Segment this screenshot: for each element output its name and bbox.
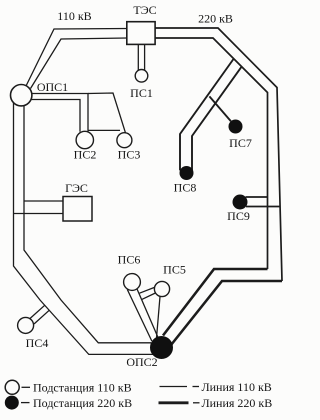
wire 110kV ПС4 stub 1 [30, 305, 45, 318]
svg-text:ОПС1: ОПС1 [37, 80, 68, 94]
wire 220kV stub to ПС7 [209, 96, 231, 121]
wire 220kV ТЭС-ОПС2 ring outer upper part [155, 28, 282, 281]
wire 110kV ОПС1-ПС2 circuit 1 with branch to ПС3 [32, 94, 89, 132]
wire 110kV ПС6-ОПС2 circuit 1 [127, 290, 152, 342]
wire 220kV ПС9 lower tap [246, 206, 280, 208]
wire 110kV ПС2-ПС3 link [88, 129, 120, 131]
wire 220kV ТЭС-ОПС2 ring inner upper part [155, 38, 267, 269]
wire 110kV ПС5 stub upper [140, 287, 156, 293]
wire 220kV feeder to ПС8 circuit 1 [180, 59, 234, 170]
wire 110kV branch to ПС3 [88, 93, 126, 133]
substation ПС4 [18, 317, 34, 333]
wire 220kV ring outer lower part [171, 281, 282, 345]
legend line 110 symbol [160, 386, 188, 388]
power station ТЭС [127, 22, 155, 45]
svg-text:ПС6: ПС6 [118, 253, 141, 267]
wire 110kV ТЭС-ПС1 circuit 1 [137, 44, 139, 71]
wire 110kV ПС5-ОПС2 [157, 297, 161, 339]
svg-text:220 кВ: 220 кВ [198, 12, 233, 26]
svg-text:ПС2: ПС2 [74, 148, 97, 162]
svg-text:Линия 110 кВ: Линия 110 кВ [202, 380, 272, 394]
svg-text:ПС4: ПС4 [26, 336, 49, 350]
wire 220kV ring inner lower part [163, 269, 268, 336]
svg-text:ПС8: ПС8 [174, 181, 197, 195]
wire 220kV ПС9 upper tap [246, 196, 268, 198]
legend substation 220 symbol [5, 396, 19, 410]
substation ОПС1 [11, 85, 32, 106]
svg-text:110 кВ: 110 кВ [57, 9, 91, 23]
wire 110kV ПС4 stub 2 [34, 310, 49, 324]
wire 110kV ОПС1-ОПС2 left outer [14, 102, 155, 354]
legend substation 110 symbol [5, 380, 19, 394]
wire 110kV ПС6-ОПС2 circuit 2 [137, 288, 159, 339]
power station ГЭС [63, 197, 92, 222]
wire 220kV feeder to ПС8 circuit 2 [192, 67, 241, 170]
wire 110kV tap to ГЭС upper [24, 200, 63, 202]
substation ПС3 [117, 133, 132, 148]
svg-text:ПС7: ПС7 [229, 136, 252, 150]
svg-text:ПС3: ПС3 [118, 148, 141, 162]
substation ПС7 [229, 120, 243, 134]
substation ПС2 [76, 131, 93, 148]
svg-text:ОПС2: ОПС2 [126, 355, 157, 369]
substation ПС9 [233, 195, 248, 210]
wire 110kV ОПС1-ПС2 circuit 2 [32, 100, 81, 132]
svg-text:ПС9: ПС9 [227, 209, 250, 223]
wire 110kV ОПС1-ТЭС circuit 1 [26, 29, 127, 87]
wire 110kV ПС5 stub lower [142, 293, 156, 300]
svg-text:ПС5: ПС5 [163, 263, 186, 277]
svg-text:Подстанция 220 кВ: Подстанция 220 кВ [33, 396, 132, 410]
substation ПС1 [135, 70, 148, 83]
substation ПС5 [154, 281, 169, 296]
svg-text:ПС1: ПС1 [130, 86, 153, 100]
wire 110kV ТЭС-ПС1 circuit 2 [144, 44, 146, 71]
svg-text:ТЭС: ТЭС [133, 3, 156, 17]
wire 110kV tap to ГЭС lower [14, 213, 64, 215]
substation ПС8 [180, 166, 194, 180]
legend line 220 symbol [159, 401, 189, 404]
svg-text:ГЭС: ГЭС [65, 181, 88, 195]
substation ОПС2 [151, 337, 173, 359]
wire 110kV ОПС1-ТЭС circuit 2 [31, 38, 128, 89]
wire 110kV ОПС1-ОПС2 left inner [24, 105, 151, 343]
substation ПС6 [124, 274, 141, 291]
svg-text:Линия 220 кВ: Линия 220 кВ [202, 396, 273, 410]
svg-text:Подстанция 110 кВ: Подстанция 110 кВ [33, 381, 132, 395]
